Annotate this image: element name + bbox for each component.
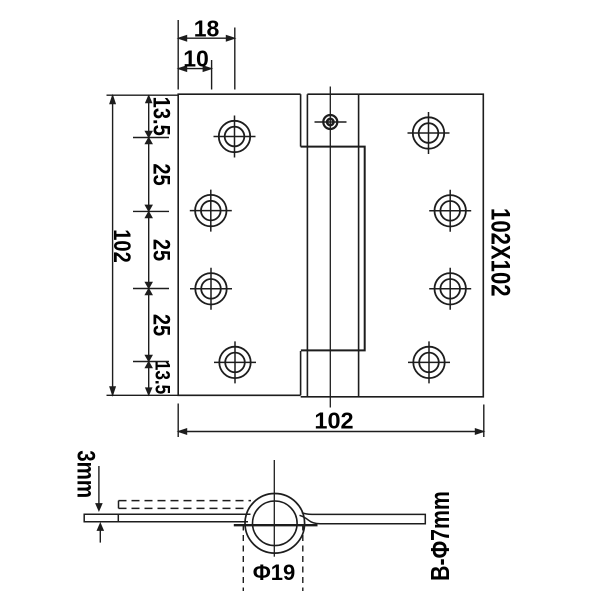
svg-text:25: 25	[148, 239, 175, 261]
left leaf plate outline	[178, 94, 300, 395]
hinge centerline	[329, 87, 331, 408]
chain tick hole4	[133, 361, 169, 363]
svg-text:13.5: 13.5	[150, 361, 173, 395]
chain dimension line	[148, 95, 150, 395]
svg-text:102: 102	[314, 407, 353, 433]
svg-text:102: 102	[109, 229, 136, 263]
svg-text:102X102: 102X102	[485, 208, 515, 297]
screw hole L4	[214, 341, 256, 383]
section vertical centerline	[273, 460, 275, 557]
extension lines 102 left	[107, 95, 178, 395]
3mm arrow up	[97, 523, 103, 543]
chain tick hole2	[133, 210, 169, 212]
3mm arrow down	[96, 466, 102, 511]
extension line hole col 10	[211, 60, 213, 90]
section right blade	[300, 513, 426, 524]
dim line 102 bottom	[178, 404, 484, 438]
screw hole L3	[190, 268, 232, 310]
svg-text:3mm: 3mm	[72, 450, 100, 498]
dimension 102 vertical	[110, 95, 116, 395]
phi19 dashed extension lines	[243, 525, 302, 592]
section heavy leaf edge line	[234, 524, 318, 526]
screw hole R2	[429, 190, 471, 232]
screw hole R3	[429, 268, 471, 310]
top knuckle edges	[307, 94, 358, 397]
screw hole R4	[408, 341, 450, 383]
svg-text:25: 25	[148, 163, 175, 185]
extension line hole col 18	[234, 28, 236, 90]
chain tick hole1	[133, 137, 169, 139]
dimension 10	[178, 66, 211, 72]
section barrel outer circle	[245, 494, 305, 554]
section view dashed open leaf	[119, 501, 252, 509]
section barrel inner circle	[252, 501, 297, 546]
svg-text:25: 25	[148, 314, 175, 336]
spring barrel tube	[301, 147, 365, 351]
svg-text:10: 10	[183, 45, 209, 71]
svg-text:B-Φ7mm: B-Φ7mm	[426, 491, 456, 581]
section view left blade	[84, 514, 250, 522]
screw hole L2	[190, 190, 232, 232]
chain tick hole3	[133, 288, 169, 290]
screw hole R1	[408, 112, 450, 154]
screw hole L1	[214, 116, 256, 158]
pin set hole	[315, 115, 347, 129]
extension line left edge top	[177, 20, 179, 90]
svg-text:18: 18	[194, 15, 220, 41]
svg-text:13.5: 13.5	[148, 97, 175, 136]
dimension 18	[178, 35, 235, 41]
right leaf plate outline	[301, 94, 484, 397]
svg-text:Φ19: Φ19	[253, 560, 296, 585]
chain arrows	[145, 95, 152, 395]
